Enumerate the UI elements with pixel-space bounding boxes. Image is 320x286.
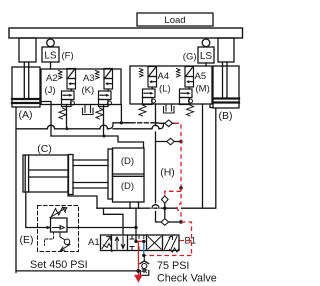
cylinder B piston bars <box>213 99 239 103</box>
wire: left frame <box>15 107 17 273</box>
valve A3 <box>96 69 113 107</box>
bus A rise to LS line <box>109 123 132 129</box>
section B arrows <box>115 237 118 249</box>
relief adjust arrow <box>50 207 67 217</box>
red dash H1 out stub <box>173 122 175 124</box>
right group port vertical <box>202 104 204 208</box>
bottom tank rail <box>16 270 138 272</box>
wire: cyl A right port down <box>40 102 51 137</box>
section A solenoid diagonal <box>102 237 110 249</box>
junction dots black <box>134 240 145 273</box>
LS box G <box>198 47 214 63</box>
wire dot to check4 <box>164 208 166 218</box>
svg-text:A4: A4 <box>158 71 170 82</box>
bus A ext hop <box>152 125 159 128</box>
valve A1B1 body <box>101 235 180 251</box>
cylinder B rod lines <box>223 62 228 97</box>
wire to H2 <box>156 141 182 143</box>
spring below A5 <box>187 105 194 116</box>
svg-text:75 PSI: 75 PSI <box>157 260 189 272</box>
svg-text:(E): (E) <box>20 234 34 246</box>
push bar bottom <box>73 183 108 189</box>
valve A2 <box>59 69 76 107</box>
valve section lines <box>112 235 163 251</box>
cylinder C piston lines <box>25 155 28 192</box>
group port stub to dot <box>120 105 122 123</box>
cylinder A piston bars <box>12 99 40 103</box>
spring below A4 <box>139 105 146 116</box>
red dashed to check valve <box>144 255 191 257</box>
relief spring top <box>52 207 66 217</box>
red seg P to blue <box>136 240 144 242</box>
spring below A2 <box>59 108 66 119</box>
svg-text:(C): (C) <box>37 143 52 155</box>
section C center ports <box>130 235 144 251</box>
check valve H1 <box>165 120 173 127</box>
LS line curve to check1 <box>155 122 165 125</box>
cylinder B body <box>213 66 239 108</box>
bus A ext rise to check1 <box>160 123 164 129</box>
wire LS-G to group <box>205 63 207 66</box>
junction dot on P <box>134 226 137 229</box>
long vertical from right group to check4 <box>156 104 161 222</box>
left valve group box <box>41 69 121 105</box>
cylinder C body <box>23 155 68 192</box>
relief drain <box>60 232 64 240</box>
bus B <box>51 136 144 148</box>
junction dot <box>163 207 166 210</box>
cylinder A body <box>12 67 40 107</box>
svg-text:(L): (L) <box>159 84 171 95</box>
svg-text:(K): (K) <box>82 85 95 96</box>
check valve H4 <box>161 219 169 226</box>
left spring <box>104 244 113 252</box>
relief pilot dashes <box>45 232 54 246</box>
svg-text:(B): (B) <box>219 110 233 122</box>
red dot 222 <box>179 220 183 224</box>
right valve group box <box>130 66 212 104</box>
svg-text:(A): (A) <box>19 109 33 121</box>
svg-text:LS: LS <box>44 51 57 62</box>
svg-text:Set 450 PSI: Set 450 PSI <box>30 259 88 271</box>
dashed box E <box>38 206 79 252</box>
cylinder C rod <box>29 170 69 177</box>
red hop over black 208 line <box>177 194 181 222</box>
spring below A3 <box>96 108 103 119</box>
svg-text:(D): (D) <box>121 156 134 167</box>
cyl B port line down <box>182 108 216 208</box>
D piston plate <box>108 149 113 199</box>
valve A5 <box>177 67 194 105</box>
check valve H2 <box>167 138 175 145</box>
wire C body down to low line (Z-step) <box>68 190 97 208</box>
section D X <box>148 237 161 250</box>
junction dot <box>120 121 123 124</box>
wire below check3 <box>164 203 166 208</box>
relief inlet arrowhead <box>47 226 52 229</box>
D divider <box>113 174 145 176</box>
right spring <box>170 248 180 252</box>
LS pilot circle F <box>47 39 55 47</box>
rod box A <box>19 38 36 62</box>
(D) bottom step wires <box>130 202 139 208</box>
relief valve box <box>51 218 68 232</box>
LS pilot circle G <box>202 39 210 47</box>
red to B1 pilot <box>179 222 192 256</box>
svg-text:(D): (D) <box>121 181 134 192</box>
blue line <box>143 242 145 256</box>
wire jog to valve T port <box>104 208 124 235</box>
svg-text:LS: LS <box>200 51 213 62</box>
wire: comp A2 down <box>66 106 68 129</box>
bus A extension right <box>113 128 160 130</box>
svg-text:Check Valve: Check Valve <box>157 272 217 284</box>
bus A hop 2 <box>100 125 108 129</box>
wire LS-F to group <box>50 62 52 69</box>
cyl C cap port down <box>26 192 50 228</box>
dashed LS line <box>125 122 156 124</box>
hop on 208 line over x155.5 <box>152 205 159 208</box>
svg-text:(F): (F) <box>62 51 74 62</box>
svg-text:(M): (M) <box>196 84 210 95</box>
wire check4 to red dot <box>169 221 181 223</box>
drain between A2/A3 <box>83 106 94 115</box>
beam <box>9 28 243 38</box>
left portion of mid-low line <box>97 207 177 209</box>
svg-text:A1: A1 <box>88 237 100 248</box>
svg-text:A5: A5 <box>195 71 207 82</box>
check valve H3 (vertical) <box>162 196 169 204</box>
wire: comp A3 down <box>103 106 105 137</box>
Load box <box>137 13 213 26</box>
junction dot H2 <box>179 140 182 143</box>
red P to tank triangle <box>137 241 139 271</box>
LS box F <box>42 47 59 62</box>
yoke plate <box>69 155 74 195</box>
link group to cylinder B <box>210 104 213 108</box>
D box <box>113 148 145 202</box>
section E arrows <box>165 236 178 249</box>
svg-text:Load: Load <box>164 15 185 26</box>
75 PSI check valve <box>143 255 145 261</box>
P line vertical <box>135 208 137 241</box>
svg-text:A3: A3 <box>83 73 95 84</box>
red dash H1 to vertical <box>175 123 182 188</box>
relief outlet line to P <box>68 227 136 229</box>
red jog to check3 <box>165 188 181 196</box>
svg-text:(G): (G) <box>183 52 197 63</box>
red pilot lines <box>134 123 192 282</box>
push bar top <box>73 160 108 166</box>
cylinder A rod lines <box>24 62 28 98</box>
bus A hop 1 <box>47 125 54 129</box>
svg-text:(J): (J) <box>45 85 56 96</box>
bus A <box>16 128 109 130</box>
valve A4 <box>140 67 157 105</box>
svg-text:(H): (H) <box>160 167 175 179</box>
relief inline arrow <box>53 226 65 230</box>
tank triangle <box>134 275 143 283</box>
rod box B <box>218 38 234 62</box>
drain under right group <box>164 104 175 113</box>
svg-text:A2: A2 <box>46 73 58 84</box>
red dot 188 <box>179 186 183 190</box>
